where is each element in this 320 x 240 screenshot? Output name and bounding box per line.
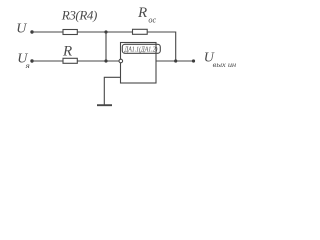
svg-text:ос: ос: [148, 16, 156, 25]
label Roc: [137, 5, 156, 25]
node A junction dot: [104, 30, 107, 33]
terminal input U: [30, 30, 33, 33]
resistor R3(R4): [63, 30, 77, 35]
wire input U to R3: [32, 31, 63, 33]
wire R3 to node A: [77, 31, 132, 33]
svg-text:я: я: [24, 62, 30, 70]
inverting input inversion circle: [119, 59, 123, 63]
op-amp label frame: [122, 44, 160, 53]
svg-text:вых ин: вых ин: [213, 62, 237, 69]
ground: [97, 104, 112, 106]
node B junction dot: [104, 59, 107, 62]
svg-text:ДА1.1(ДА1.2): ДА1.1(ДА1.2): [124, 46, 158, 54]
svg-text:R3(R4): R3(R4): [61, 7, 98, 22]
wire input Uya to R: [32, 60, 63, 62]
resistor Roc feedback: [133, 29, 148, 34]
terminal output: [192, 59, 195, 62]
wire node A down to inverting input: [105, 32, 107, 61]
terminal input Uya: [30, 59, 33, 62]
resistor R: [63, 58, 77, 63]
op-amp U1 DA1.1(DA1.2) body: [121, 43, 157, 84]
label R: [62, 43, 72, 59]
label U output: [204, 51, 237, 69]
label R3(R4): [61, 7, 98, 22]
svg-text:R: R: [62, 43, 72, 59]
label U input 1: [16, 22, 27, 37]
node C feedback junction dot: [174, 59, 177, 62]
label DA1.1(DA1.2): [124, 46, 158, 54]
wire R to inverting input of DA1: [77, 60, 119, 62]
wire non-inverting input to ground: [104, 77, 120, 104]
svg-text:R: R: [137, 5, 147, 21]
label Uya input 2: [17, 51, 30, 70]
wire op-amp output: [156, 60, 194, 62]
wire Roc to feedback corner: [147, 32, 176, 61]
svg-text:U: U: [16, 22, 27, 37]
